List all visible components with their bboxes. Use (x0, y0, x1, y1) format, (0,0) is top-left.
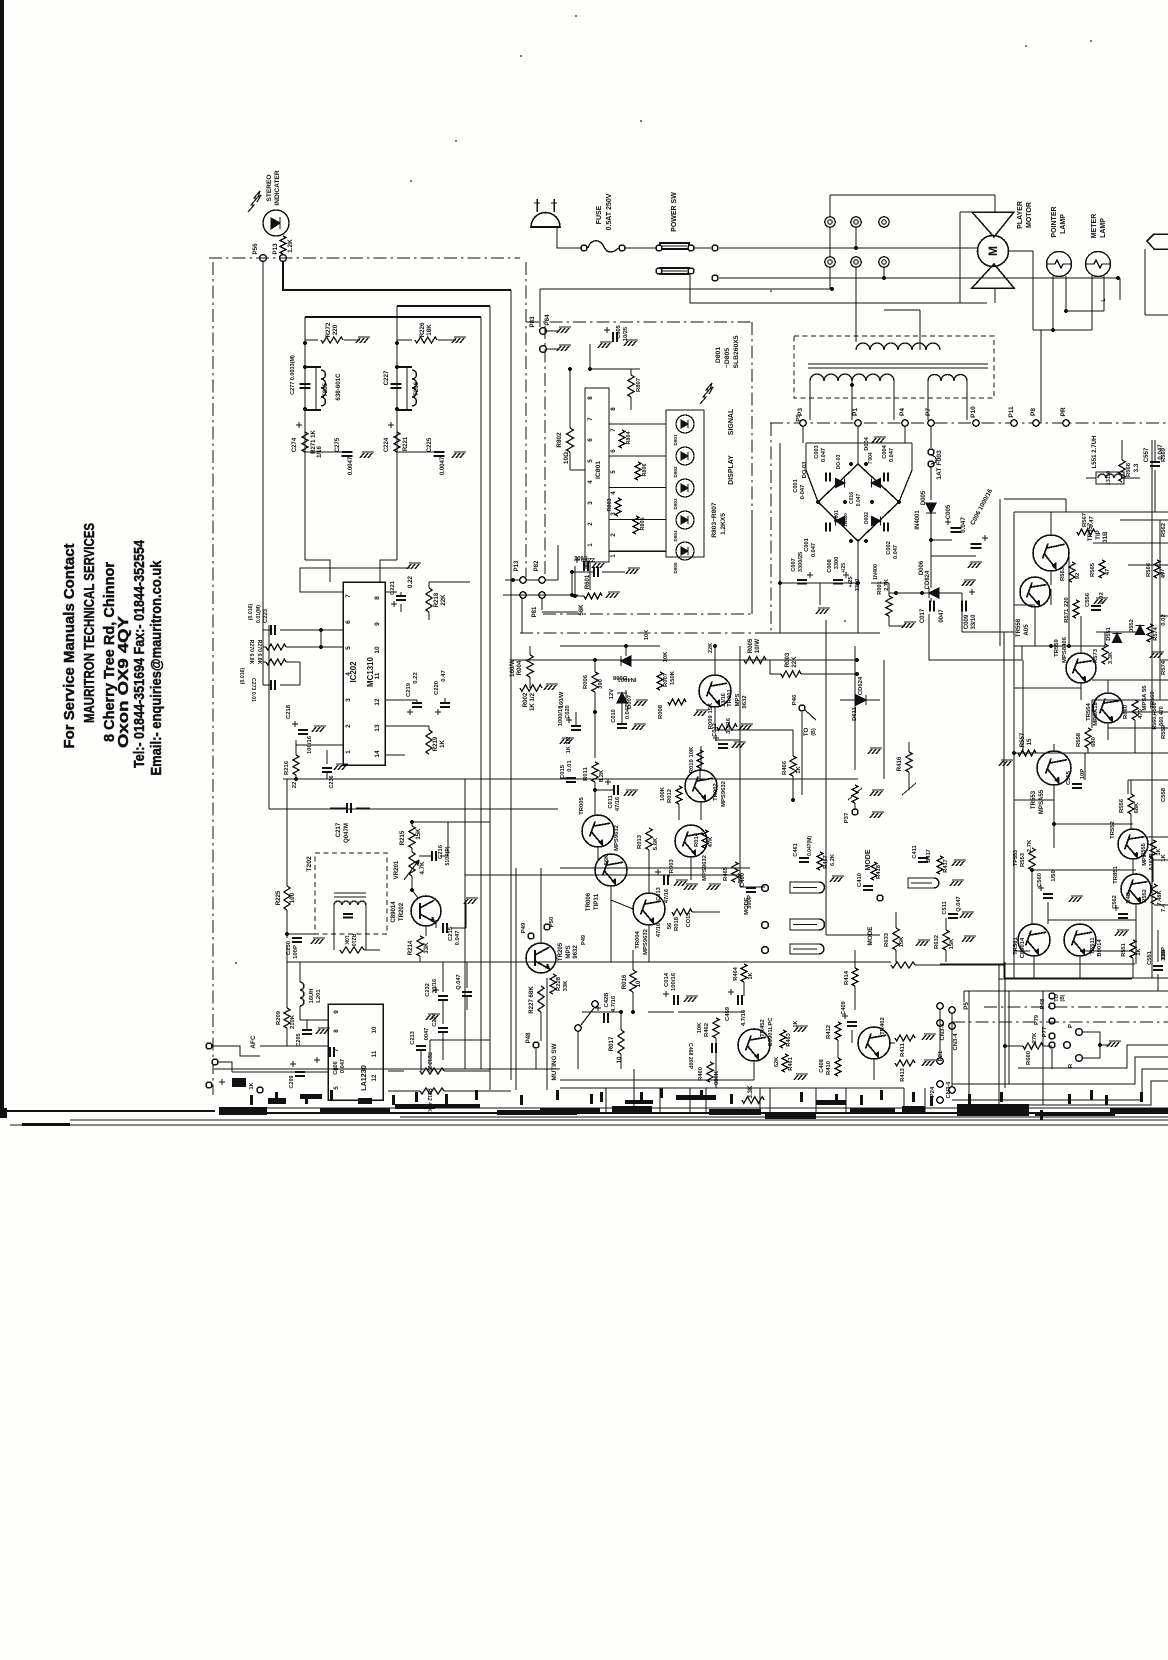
svg-text:(B): (B) (811, 728, 817, 736)
svg-text:R802: R802 (556, 432, 563, 448)
svg-text:TR004: TR004 (635, 930, 641, 948)
svg-text:4.7K: 4.7K (419, 861, 426, 874)
capacitor C277 0.0033 (300, 383, 311, 385)
svg-text:15: 15 (1026, 738, 1033, 745)
wire display feed (590, 344, 640, 369)
svg-text:C001: C001 (804, 538, 810, 551)
svg-text:P49: P49 (581, 935, 587, 945)
resistor R807 (628, 375, 634, 397)
wire long bus y1069 (214, 1068, 560, 1070)
svg-text:R569: R569 (1161, 447, 1167, 462)
svg-text:1AT F003: 1AT F003 (936, 450, 943, 480)
svg-text:C42Β: C42Β (604, 992, 610, 1007)
wire bottom rails mid (582, 1011, 583, 1013)
capacitor C460 390P (746, 887, 756, 889)
svg-text:CO13: CO13 (686, 913, 692, 928)
connector column CN3-6 (937, 1003, 943, 1009)
resistor R227 68K (538, 986, 544, 1012)
svg-text:0.22: 0.22 (413, 672, 419, 684)
connector P46 (799, 705, 805, 711)
svg-text:R413: R413 (900, 1068, 906, 1082)
svg-text:C213: C213 (410, 1031, 416, 1045)
wire bridge to amp fills (962, 631, 1014, 633)
capacitor C206 0.047 (329, 1047, 331, 1057)
svg-text:R007: R007 (663, 672, 669, 687)
svg-text:1K 1/2: 1K 1/2 (566, 737, 572, 754)
wire top rail (830, 194, 995, 196)
wire dash-dot right of IF section (525, 262, 527, 577)
svg-text:13110: 13110 (1106, 471, 1112, 485)
svg-text:R006: R006 (583, 674, 589, 689)
resistor R272 220 (321, 337, 343, 343)
svg-text:39K: 39K (738, 872, 744, 884)
svg-text:8: 8 (587, 396, 594, 400)
svg-text:0.01: 0.01 (567, 760, 573, 772)
svg-text:R555: R555 (1141, 843, 1147, 857)
svg-text:CN3-6: CN3-6 (940, 1023, 946, 1041)
wires LA1230 area (286, 962, 288, 1008)
svg-text:R568: R568 (1126, 462, 1132, 477)
svg-text:33K: 33K (563, 980, 569, 992)
svg-text:C556: C556 (1085, 592, 1091, 607)
svg-text:R567: R567 (1082, 512, 1088, 527)
svg-text:MPS9632: MPS9632 (643, 928, 649, 955)
svg-text:D801: D801 (673, 434, 678, 445)
svg-text:R551: R551 (1121, 943, 1127, 957)
potentiometer VR201 (409, 852, 415, 876)
svg-text:1: 1 (610, 554, 617, 558)
capacitor C468 200P (711, 1043, 713, 1053)
svg-text:C220: C220 (434, 680, 440, 695)
svg-text:7.48Κ: 7.48Κ (1157, 890, 1163, 906)
svg-text:C011: C011 (608, 795, 614, 808)
jack sockets (762, 885, 769, 892)
svg-text:C468 200P: C468 200P (687, 1043, 693, 1069)
svg-text:R807: R807 (636, 377, 642, 392)
svg-text:160/W: 160/W (559, 691, 565, 708)
resistor R002 1K (520, 685, 542, 691)
resistor R214 33K (417, 936, 423, 956)
svg-text:IN4001: IN4001 (915, 510, 921, 530)
svg-text:160/W: 160/W (509, 659, 516, 677)
svg-text:+/25: +/25 (841, 563, 847, 573)
svg-text:R013: R013 (637, 834, 643, 849)
svg-text:D004: D004 (864, 436, 870, 450)
svg-text:TR851: TR851 (1113, 865, 1119, 883)
svg-text:3.3Κ: 3.3Κ (1108, 651, 1114, 664)
svg-text:TR005: TR005 (579, 796, 585, 814)
svg-text:22K: 22K (791, 656, 798, 668)
svg-text:3: 3 (345, 698, 352, 702)
capacitor C214 (438, 1027, 448, 1029)
resistor R221 (394, 432, 400, 452)
svg-text:R574: R574 (1161, 660, 1167, 675)
LED D804 (676, 511, 694, 529)
svg-text:10: 10 (371, 1026, 378, 1033)
svg-text:Ρ79: Ρ79 (1034, 1015, 1040, 1025)
svg-text:16UH: 16UH (309, 988, 315, 1003)
connector P3 (800, 420, 806, 426)
svg-text:C009: C009 (964, 614, 970, 629)
svg-text:Q.047: Q.047 (456, 974, 462, 989)
resistor R005 10/W (744, 657, 766, 664)
svg-text:5: 5 (610, 470, 617, 474)
LED D805 (676, 542, 694, 560)
svg-text:T205: T205 (322, 382, 329, 397)
svg-text:D001: D001 (834, 510, 840, 522)
coil L201 16UH (300, 982, 304, 1006)
transistor TR001 MPS9632 (699, 675, 731, 707)
svg-text:R017: R017 (608, 1036, 615, 1051)
svg-text:0047: 0047 (939, 609, 945, 623)
svg-text:0.5AT 250V: 0.5AT 250V (606, 193, 613, 230)
svg-text:C274: C274 (292, 437, 298, 452)
resistor R010 10K (697, 750, 703, 768)
svg-text:4.7/16: 4.7/16 (611, 995, 617, 1012)
svg-text:3: 3 (610, 512, 617, 516)
capacitor C461 0.047M (799, 857, 809, 859)
capacitor C008 3300 (833, 579, 843, 581)
svg-text:2: 2 (587, 522, 594, 526)
svg-text:47K: 47K (708, 836, 714, 848)
svg-text:2: 2 (345, 724, 352, 728)
zener D007 12V (617, 693, 627, 703)
capacitor C562 1/46 (1118, 913, 1128, 915)
resistor R574 (1147, 624, 1153, 642)
connector P49 (528, 933, 534, 939)
svg-text:150K: 150K (670, 670, 676, 685)
wire x465 riser (464, 779, 466, 875)
svg-text:R418: R418 (876, 864, 882, 879)
resistor R018 56 (672, 909, 692, 915)
svg-text:0.047: 0.047 (811, 543, 817, 557)
wires right block (1050, 512, 1052, 535)
svg-text:47/16: 47/16 (656, 923, 662, 937)
wire right block fills (1151, 512, 1153, 978)
svg-text:MPSA18: MPSA18 (1093, 702, 1099, 726)
wire display box inner (751, 520, 753, 614)
svg-text:0.047: 0.047 (856, 494, 862, 507)
connector P82 (539, 577, 545, 583)
svg-text:ΤΡ553: ΤΡ553 (1013, 850, 1019, 866)
svg-text:1N400: 1N400 (873, 564, 879, 580)
svg-text:14: 14 (374, 750, 381, 758)
svg-text:0.02: 0.02 (1161, 614, 1167, 626)
svg-text:1K: 1K (793, 1019, 799, 1027)
svg-text:C225: C225 (427, 437, 433, 452)
wires amp cluster (625, 690, 627, 706)
connector P81a (520, 592, 526, 598)
wire dash-dot P-line (770, 422, 1168, 424)
svg-text:100/16: 100/16 (671, 972, 677, 991)
svg-text:12V: 12V (609, 689, 615, 700)
wire from P56 down (262, 261, 264, 632)
connector P50 (544, 924, 550, 930)
svg-text:R002: R002 (522, 692, 529, 707)
capacitor C557 0.047 (1150, 461, 1160, 463)
transistor TR561 C89014 (1018, 924, 1050, 956)
diode D551 (1113, 634, 1122, 643)
transistor TR003 MPS9632 (675, 825, 707, 857)
svg-text:STEREO: STEREO (266, 175, 273, 202)
svg-text:56: 56 (667, 922, 673, 929)
capacitor C217 0.047M (346, 803, 348, 813)
capacitor C213 0047 (416, 1045, 426, 1047)
capacitor C601 22/50 (593, 567, 595, 577)
svg-text:DO-03: DO-03 (836, 454, 842, 469)
resistor R012 100K (676, 786, 682, 804)
power transformer T001 (794, 336, 994, 398)
capacitor C273 0.01 (270, 680, 272, 690)
svg-text:DO-03: DO-03 (802, 462, 808, 479)
svg-text:R219: R219 (432, 736, 439, 751)
capacitor C218 100/16 (292, 723, 298, 725)
svg-text:P24: P24 (930, 1086, 936, 1097)
resistor R466 1K (790, 756, 796, 776)
svg-text:Tel:- 01844-351694 Fax:- 01844: Tel:- 01844-351694 Fax:- 01844-352554 (131, 539, 148, 768)
svg-text:0.47: 0.47 (441, 670, 447, 682)
svg-text:ΤΒ511: ΤΒ511 (1090, 937, 1096, 955)
svg-text:T202: T202 (306, 856, 313, 872)
svg-text:P46: P46 (792, 694, 798, 705)
wire tank2 top to R226 (397, 339, 412, 341)
svg-text:1K: 1K (748, 971, 754, 979)
scan edge bar (0, 0, 4, 1113)
svg-text:3300: 3300 (855, 579, 861, 592)
resistor R218 22K (426, 588, 432, 612)
svg-text:P50: P50 (549, 916, 555, 927)
svg-text:R633: R633 (884, 932, 890, 947)
wire upper (397, 305, 490, 307)
svg-text:R462: R462 (704, 1022, 710, 1037)
capacitor C221 0.22 (396, 595, 406, 597)
wire bottom drops (605, 1088, 607, 1114)
svg-text:33/16: 33/16 (721, 693, 727, 707)
wire bottom rail 1 (260, 1107, 1168, 1109)
svg-text:Q047M: Q047M (343, 823, 350, 843)
svg-text:11: 11 (371, 1050, 378, 1057)
svg-text:For Service Manuals Contact: For Service Manuals Contact (61, 544, 78, 749)
svg-text:12: 12 (371, 1074, 378, 1081)
svg-text:C003: C003 (814, 445, 820, 458)
transistor TR006 TIP31 (595, 854, 627, 886)
resistor R806 (635, 462, 641, 480)
wire plug to fuse (557, 227, 581, 248)
svg-text:TR006: TR006 (585, 892, 592, 911)
connector P83 (540, 328, 547, 335)
wire vertical x305 tank1 (304, 317, 306, 470)
svg-text:C277 0.0033(M): C277 0.0033(M) (290, 355, 296, 395)
resistor R460 680K (707, 1062, 713, 1082)
capacitor C216 510P (431, 851, 433, 861)
svg-text:9: 9 (374, 622, 381, 626)
stereo indicator LED D201 (263, 210, 289, 236)
resistor R557 15 (1018, 750, 1036, 756)
svg-text:R272: R272 (325, 322, 332, 337)
svg-text:R010 10K: R010 10K (689, 746, 695, 773)
svg-text:AFC: AFC (250, 1035, 257, 1049)
svg-text:C562: C562 (1112, 895, 1118, 909)
resistor R016 10 (630, 970, 636, 992)
resistor R463 (780, 1030, 786, 1048)
svg-text:P13: P13 (272, 243, 279, 255)
resistor R803 (615, 498, 621, 516)
transformer T205 (304, 367, 306, 409)
resistor R410 (835, 1058, 841, 1076)
resistor R008 (668, 699, 686, 705)
svg-text:R018: R018 (674, 916, 680, 931)
resistor R411 (895, 1035, 915, 1041)
svg-text:12: 12 (374, 698, 381, 706)
svg-text:C224: C224 (384, 437, 390, 452)
resistor R228 33K (550, 974, 556, 994)
svg-text:1K: 1K (1161, 853, 1167, 861)
svg-text:7.4: 7.4 (1161, 903, 1167, 912)
svg-text:D805: D805 (673, 562, 678, 573)
wire connector cluster (511, 578, 515, 582)
wire mid verticals (739, 646, 741, 887)
svg-text:C511: C511 (942, 901, 948, 914)
svg-text:0.01(M): 0.01(M) (256, 605, 262, 623)
svg-text:1N400: 1N400 (843, 513, 848, 527)
svg-text:47: 47 (1161, 571, 1167, 578)
resistor R556 68K (1128, 794, 1134, 814)
resistor R660b 470 (1132, 700, 1138, 720)
connector P4 (902, 420, 908, 426)
svg-text:R209: R209 (276, 1010, 282, 1025)
svg-text:6: 6 (587, 438, 594, 442)
wire dash-dot bottom right (984, 1006, 1168, 1008)
svg-text:15K: 15K (415, 828, 422, 840)
resistor R413 (895, 1060, 915, 1066)
LED D803 (676, 479, 694, 497)
transistor TR205 MPS9632 (526, 943, 556, 973)
wire lamp feeds (1052, 276, 1054, 330)
svg-text:C214: C214 (432, 1012, 438, 1026)
wire dash-dot power section left (770, 423, 772, 633)
transistor TR554 MPSA18 (1093, 693, 1123, 723)
svg-text:11: 11 (374, 672, 381, 679)
resistor R215 15K (409, 826, 415, 848)
wire bus y962 (287, 961, 560, 963)
connector PR (1063, 420, 1069, 426)
capacitor C007 3300/25 (780, 582, 858, 584)
svg-text:1.2K: 1.2K (287, 239, 294, 253)
wire TR001 emitter to R466 (715, 729, 793, 731)
wire IF box left (268, 625, 270, 809)
wire bus vertical x511 (510, 290, 512, 1080)
svg-text:C205: C205 (296, 1034, 302, 1047)
svg-text:R463: R463 (786, 1033, 792, 1047)
resistor R003 22K (781, 671, 801, 677)
svg-text:0.047: 0.047 (625, 705, 631, 719)
resistor R226 18K (415, 337, 437, 343)
svg-text:P11: P11 (1008, 406, 1015, 418)
svg-text:P4: P4 (899, 408, 906, 416)
svg-text:33/10: 33/10 (971, 614, 977, 630)
svg-text:Β417: Β417 (926, 849, 932, 863)
svg-text:R461: R461 (788, 1057, 794, 1071)
svg-text:1K: 1K (439, 740, 446, 748)
wire bottom rail 3 (70, 1119, 1168, 1121)
svg-text:Γ004: Γ004 (868, 452, 874, 464)
wire rail y646 (560, 645, 660, 647)
AC plug (531, 213, 560, 228)
svg-text:R213 22: R213 22 (426, 1052, 432, 1072)
svg-text:2: 2 (610, 533, 617, 537)
resistor R571 220 (1073, 600, 1079, 618)
transistor TR557 TIP31B (1033, 535, 1069, 571)
svg-text:3300/25: 3300/25 (798, 552, 804, 572)
LED D802 (676, 447, 694, 465)
svg-text:3: 3 (587, 501, 594, 505)
wire TR001 collector (714, 646, 716, 675)
diode D005 IN4001 (930, 467, 932, 500)
svg-text:D802: D802 (673, 466, 678, 477)
svg-text:R574: R574 (1153, 626, 1159, 640)
svg-text:MODE: MODE (744, 897, 750, 915)
svg-text:0.047(M): 0.047(M) (807, 836, 813, 856)
connector P8 (1033, 420, 1039, 426)
capacitor C556 0.02 (1091, 605, 1101, 607)
svg-text:R411: R411 (900, 1042, 906, 1056)
svg-text:9632: 9632 (572, 945, 579, 959)
svg-text:C218: C218 (286, 704, 292, 719)
capacitor C017 0047 (929, 601, 931, 612)
svg-text:C89014: C89014 (1020, 937, 1026, 958)
capacitor C236 (322, 767, 332, 769)
svg-text:INDICATER: INDICATER (274, 170, 281, 205)
resistor R412 (835, 1022, 841, 1040)
svg-text:R012: R012 (667, 788, 673, 803)
connector P10 (973, 420, 979, 426)
wire rail y660 (511, 659, 857, 661)
resistor R568 (1119, 460, 1125, 482)
svg-text:C007: C007 (791, 558, 797, 571)
svg-text:P48: P48 (525, 1032, 532, 1043)
svg-text:92: 92 (1075, 572, 1081, 579)
svg-text:D803: D803 (673, 498, 678, 509)
wire right block net (1022, 645, 1105, 647)
svg-text:R008: R008 (658, 704, 664, 719)
svg-text:0.047: 0.047 (889, 448, 895, 462)
svg-text:C232: C232 (425, 983, 431, 997)
resistor R011 8.2K (592, 762, 598, 782)
svg-text:R210: R210 (350, 934, 356, 947)
wire lower return (540, 288, 832, 290)
svg-text:R412: R412 (826, 1024, 832, 1039)
resistor R804 (619, 430, 625, 448)
svg-text:1: 1 (587, 543, 594, 547)
svg-text:LAMP: LAMP (1060, 214, 1067, 234)
svg-text:TIP: TIP (1095, 530, 1102, 539)
svg-text:C013: C013 (656, 887, 662, 901)
svg-text:6: 6 (610, 449, 617, 453)
svg-text:3.3: 3.3 (1133, 463, 1140, 472)
capacitor C015 0.01 (566, 777, 576, 779)
svg-text:C409: C409 (841, 1001, 847, 1015)
svg-text:100K: 100K (660, 786, 666, 801)
capacitor C411 (918, 857, 928, 859)
wire amp top feeds (1004, 498, 1066, 500)
svg-text:R460: R460 (698, 1066, 704, 1081)
wire transformer taps (919, 310, 921, 350)
capacitor C275 0.0047 (342, 451, 353, 453)
svg-text:10K: 10K (697, 1022, 703, 1034)
capacitor C209 (295, 1071, 305, 1073)
svg-text:C217: C217 (335, 822, 342, 837)
svg-text:C410: C410 (857, 872, 863, 887)
